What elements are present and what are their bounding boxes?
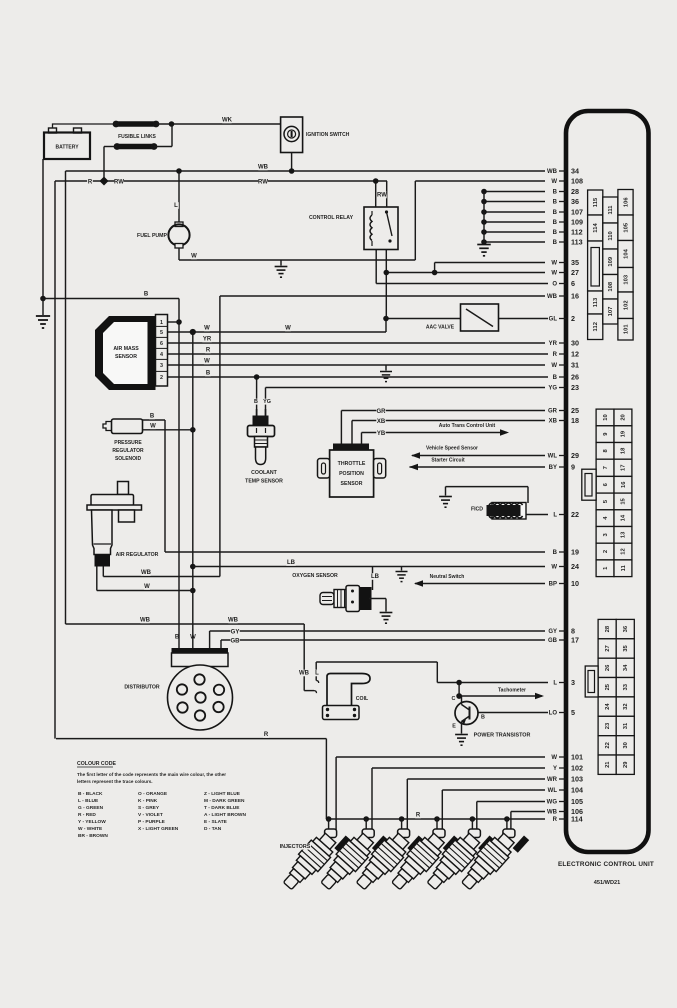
svg-text:2: 2 bbox=[571, 314, 575, 323]
svg-text:27: 27 bbox=[605, 645, 611, 651]
ECU middle connector table pins 1-20 bbox=[596, 409, 614, 426]
svg-text:AIR MASS: AIR MASS bbox=[113, 346, 139, 352]
svg-text:W: W bbox=[191, 254, 197, 260]
air mass sensor connector pins bbox=[156, 315, 168, 387]
svg-text:W: W bbox=[551, 271, 557, 277]
svg-text:104: 104 bbox=[571, 785, 583, 794]
label COIL bbox=[355, 696, 370, 702]
svg-text:X - LIGHT GREEN: X - LIGHT GREEN bbox=[138, 826, 179, 832]
svg-text:SOLENOID: SOLENOID bbox=[115, 456, 142, 462]
svg-text:112: 112 bbox=[593, 322, 599, 331]
svg-text:POWER TRANSISTOR: POWER TRANSISTOR bbox=[474, 733, 531, 739]
label INJECTORS bbox=[279, 844, 311, 850]
svg-text:BY: BY bbox=[549, 465, 557, 471]
svg-text:INJECTORS: INJECTORS bbox=[280, 844, 311, 850]
svg-text:101: 101 bbox=[571, 752, 583, 761]
wire labels GR XB YB bbox=[376, 408, 385, 415]
svg-text:15: 15 bbox=[621, 497, 627, 504]
injector 3 bbox=[351, 820, 424, 897]
svg-text:21: 21 bbox=[605, 761, 611, 768]
svg-text:Neutral Switch: Neutral Switch bbox=[430, 574, 465, 580]
svg-text:113: 113 bbox=[571, 237, 583, 246]
air mass sensor bbox=[95, 316, 156, 390]
svg-text:17: 17 bbox=[571, 635, 579, 644]
svg-text:110: 110 bbox=[608, 231, 614, 240]
svg-text:C: C bbox=[452, 696, 456, 702]
wire YR air mass pin6 to pin 30 bbox=[168, 342, 546, 344]
svg-text:WB: WB bbox=[140, 618, 151, 624]
wire WB air regulator bbox=[103, 576, 220, 578]
svg-text:M - DARK GREEN: M - DARK GREEN bbox=[204, 798, 245, 804]
svg-text:AAC VALVE: AAC VALVE bbox=[426, 325, 455, 331]
svg-text:W: W bbox=[551, 261, 557, 267]
svg-text:30: 30 bbox=[623, 742, 629, 748]
ignition switch bbox=[281, 117, 303, 153]
svg-text:7: 7 bbox=[603, 466, 609, 469]
wire R air mass pin4 to pin 12 bbox=[168, 353, 549, 355]
svg-text:102: 102 bbox=[623, 300, 629, 310]
svg-text:12: 12 bbox=[571, 349, 579, 358]
labels WB L at coil bbox=[299, 670, 308, 677]
svg-text:WB: WB bbox=[228, 618, 239, 624]
wire RW from battery to control relay bbox=[55, 180, 387, 182]
svg-text:103: 103 bbox=[623, 274, 629, 284]
junction R RW diamond bbox=[99, 176, 108, 185]
svg-text:RW: RW bbox=[258, 180, 268, 186]
svg-text:B: B bbox=[481, 715, 485, 721]
svg-text:31: 31 bbox=[623, 722, 629, 729]
AAC valve bbox=[461, 304, 499, 331]
svg-text:W: W bbox=[551, 363, 557, 369]
svg-text:YG: YG bbox=[548, 386, 557, 392]
svg-text:16: 16 bbox=[571, 291, 579, 300]
svg-text:LB: LB bbox=[287, 560, 296, 566]
wire L coil to pin 3 bbox=[315, 662, 317, 681]
svg-text:26: 26 bbox=[605, 664, 611, 671]
svg-text:YG: YG bbox=[263, 399, 271, 405]
svg-text:18: 18 bbox=[571, 416, 579, 425]
svg-text:107: 107 bbox=[571, 207, 583, 216]
battery ground bbox=[40, 296, 46, 302]
svg-text:B: B bbox=[254, 399, 258, 405]
svg-text:K - PINK: K - PINK bbox=[138, 798, 158, 804]
svg-text:G - GREEN: G - GREEN bbox=[78, 805, 104, 811]
wire B battery ground feed bbox=[43, 298, 179, 300]
wire O relay coil to pin 6 bbox=[376, 283, 548, 285]
svg-text:W: W bbox=[551, 565, 557, 571]
svg-text:W: W bbox=[285, 326, 291, 332]
svg-text:4: 4 bbox=[160, 352, 163, 358]
wire WB left vertical bbox=[65, 171, 67, 624]
svg-text:B: B bbox=[553, 240, 558, 246]
injector 6 bbox=[456, 820, 529, 897]
wire LB stub to oxygen sensor bbox=[372, 567, 374, 591]
svg-text:5: 5 bbox=[160, 330, 163, 336]
svg-text:13: 13 bbox=[621, 531, 627, 538]
wires air regulator bbox=[102, 567, 104, 577]
wire ignition switch to WB bus bbox=[291, 153, 293, 172]
svg-text:Vehicle Speed Sensor: Vehicle Speed Sensor bbox=[426, 446, 478, 452]
svg-text:101: 101 bbox=[623, 324, 629, 334]
svg-text:LB: LB bbox=[371, 574, 380, 580]
svg-text:WR: WR bbox=[547, 777, 558, 783]
battery bbox=[44, 133, 90, 160]
wire W air regulator bbox=[97, 590, 193, 592]
junction W pressure regulator bbox=[190, 427, 196, 433]
wire lower link left to RW junction bbox=[104, 146, 117, 148]
injector 5 bbox=[422, 820, 495, 897]
ECU bottom connector table pins 21-36 bbox=[598, 619, 616, 638]
svg-text:B: B bbox=[553, 200, 558, 206]
FICD solenoid bbox=[492, 503, 526, 520]
svg-text:WG: WG bbox=[547, 800, 558, 806]
svg-text:GR: GR bbox=[377, 409, 387, 415]
svg-text:A - LIGHT BROWN: A - LIGHT BROWN bbox=[204, 812, 246, 818]
svg-text:B: B bbox=[150, 414, 155, 420]
svg-text:WB: WB bbox=[299, 671, 310, 677]
svg-text:The first letter of the code r: The first letter of the code represents … bbox=[77, 772, 226, 777]
svg-text:GR: GR bbox=[548, 409, 558, 415]
svg-text:COIL: COIL bbox=[356, 696, 369, 702]
svg-text:33: 33 bbox=[623, 683, 629, 690]
svg-text:PRESSURE: PRESSURE bbox=[114, 440, 142, 446]
svg-text:Starter Circuit: Starter Circuit bbox=[431, 458, 465, 464]
svg-text:107: 107 bbox=[608, 307, 614, 317]
wire WB battery/ignition bus to pin 34 bbox=[66, 170, 546, 172]
svg-text:D - TAN: D - TAN bbox=[204, 826, 222, 832]
fuel pump bbox=[176, 168, 182, 174]
svg-text:RW: RW bbox=[114, 180, 124, 186]
wire B pressure regulator to pin 19 bbox=[165, 551, 545, 553]
svg-text:6: 6 bbox=[571, 279, 575, 288]
wires relay top bbox=[375, 181, 377, 207]
svg-text:24: 24 bbox=[605, 703, 611, 710]
wire W relay to pin 35 bbox=[435, 262, 545, 264]
svg-text:W: W bbox=[551, 755, 557, 761]
svg-text:108: 108 bbox=[571, 176, 583, 185]
ECU electronic control unit outline bbox=[566, 111, 649, 852]
svg-text:BP: BP bbox=[549, 582, 557, 588]
svg-text:COOLANT: COOLANT bbox=[251, 470, 277, 476]
wire WB to pin 16 bbox=[220, 295, 545, 297]
svg-text:115: 115 bbox=[593, 197, 599, 207]
wire GR throttle sensor to pin 25 bbox=[341, 410, 545, 412]
wire W relay switch to pin 27 bbox=[386, 272, 545, 274]
wire B air mass pin2 to pin 26 bbox=[168, 376, 549, 378]
svg-text:L: L bbox=[315, 671, 319, 677]
svg-text:22: 22 bbox=[571, 510, 579, 519]
svg-text:R: R bbox=[206, 348, 211, 354]
junction W air regulator bbox=[190, 588, 196, 594]
svg-text:WL: WL bbox=[548, 454, 558, 460]
svg-text:12: 12 bbox=[621, 548, 627, 554]
injector 4 bbox=[386, 820, 459, 897]
wire YB throttle sensor to auto trans arrow bbox=[362, 432, 507, 434]
wire B ground cluster pins 28-113 bbox=[484, 191, 545, 193]
svg-text:30: 30 bbox=[571, 338, 579, 347]
svg-text:B - BLACK: B - BLACK bbox=[78, 791, 103, 797]
svg-text:114: 114 bbox=[593, 223, 599, 233]
svg-text:Tachometer: Tachometer bbox=[498, 688, 526, 694]
wire WB vertical to coil bbox=[303, 624, 305, 691]
svg-text:W: W bbox=[190, 635, 196, 641]
wire W fuel pump to pin 108 bbox=[415, 180, 545, 182]
svg-text:2: 2 bbox=[160, 375, 163, 381]
wire BP neutral switch arrow to pin 10 bbox=[415, 583, 545, 585]
svg-text:R: R bbox=[553, 352, 558, 358]
svg-text:109: 109 bbox=[608, 256, 614, 266]
wire L FICD to pin 22 bbox=[526, 514, 548, 516]
wire LO power transistor base to pin 5 bbox=[478, 712, 548, 714]
power transistor bbox=[455, 702, 478, 725]
svg-text:451/WD21: 451/WD21 bbox=[594, 880, 620, 886]
svg-text:105: 105 bbox=[571, 797, 583, 806]
wire W air mass pin3 to pin 31 bbox=[168, 364, 546, 366]
wire GL AAC valve to pin 2 bbox=[386, 318, 461, 320]
svg-text:V - VIOLET: V - VIOLET bbox=[138, 812, 163, 818]
svg-text:YR: YR bbox=[203, 337, 212, 343]
wire labels air mass rows bbox=[204, 325, 210, 332]
svg-text:LO: LO bbox=[549, 711, 558, 717]
svg-text:27: 27 bbox=[571, 268, 579, 277]
svg-text:24: 24 bbox=[571, 562, 579, 571]
wire WB distributor/coil bus bbox=[66, 623, 305, 625]
pressure regulator solenoid bbox=[112, 419, 143, 434]
svg-text:E: E bbox=[452, 724, 456, 730]
svg-text:W: W bbox=[551, 179, 557, 185]
oxygen sensor ground bbox=[369, 598, 386, 600]
svg-text:Y: Y bbox=[553, 766, 557, 772]
svg-text:20: 20 bbox=[621, 414, 627, 420]
wire W vertical to distributor bbox=[192, 332, 194, 650]
svg-text:6: 6 bbox=[160, 341, 163, 347]
svg-text:L: L bbox=[174, 203, 178, 209]
svg-text:11: 11 bbox=[621, 564, 627, 571]
svg-text:29: 29 bbox=[623, 761, 629, 768]
svg-text:28: 28 bbox=[605, 625, 611, 632]
svg-text:108: 108 bbox=[608, 281, 614, 291]
svg-text:DISTRIBUTOR: DISTRIBUTOR bbox=[124, 685, 160, 691]
svg-text:FICD: FICD bbox=[471, 507, 483, 513]
svg-text:34: 34 bbox=[623, 664, 629, 671]
svg-text:10: 10 bbox=[603, 414, 609, 420]
svg-text:B: B bbox=[553, 220, 558, 226]
wire fusible links to ignition switch WK bbox=[156, 123, 281, 125]
svg-text:17: 17 bbox=[621, 465, 627, 471]
svg-text:B: B bbox=[175, 635, 180, 641]
wire GB distributor to pin 17 bbox=[221, 639, 545, 641]
svg-text:28: 28 bbox=[571, 187, 579, 196]
svg-text:RW: RW bbox=[377, 193, 387, 199]
svg-text:L: L bbox=[553, 513, 557, 519]
svg-text:9: 9 bbox=[571, 462, 575, 471]
svg-text:SENSOR: SENSOR bbox=[115, 354, 137, 360]
wire W fuel pump bottom run bbox=[179, 259, 415, 261]
FICD solenoid circuit ground bbox=[445, 487, 447, 496]
svg-text:112: 112 bbox=[571, 227, 583, 236]
label AIR REGULATOR bbox=[115, 552, 159, 558]
svg-text:W: W bbox=[150, 423, 156, 429]
wires pressure regulator B W bbox=[143, 419, 166, 421]
svg-text:R: R bbox=[264, 732, 269, 738]
svg-text:REGULATOR: REGULATOR bbox=[112, 448, 144, 454]
wire WL vehicle speed sensor arrow to pin 29 bbox=[412, 455, 545, 457]
svg-text:Y - YELLOW: Y - YELLOW bbox=[78, 819, 106, 825]
wire battery negative down bbox=[42, 159, 44, 299]
svg-text:36: 36 bbox=[571, 197, 579, 206]
svg-text:18: 18 bbox=[621, 447, 627, 454]
svg-text:B: B bbox=[553, 210, 558, 216]
svg-text:114: 114 bbox=[571, 814, 583, 823]
svg-text:GL: GL bbox=[549, 317, 558, 323]
svg-text:AIR REGULATOR: AIR REGULATOR bbox=[116, 552, 159, 558]
svg-text:T - DARK BLUE: T - DARK BLUE bbox=[204, 805, 240, 811]
svg-text:104: 104 bbox=[623, 248, 629, 258]
svg-text:35: 35 bbox=[571, 258, 579, 267]
svg-text:GB: GB bbox=[231, 639, 241, 645]
wire R injector bus to pin 114 bbox=[326, 818, 545, 820]
wire battery positive to fusible links bbox=[53, 124, 115, 128]
svg-text:19: 19 bbox=[571, 547, 579, 556]
svg-text:SENSOR: SENSOR bbox=[341, 481, 363, 487]
svg-text:Z - LIGHT BLUE: Z - LIGHT BLUE bbox=[204, 791, 241, 797]
svg-text:BR - BROWN: BR - BROWN bbox=[78, 833, 108, 839]
svg-text:3: 3 bbox=[571, 678, 575, 687]
ignition coil bbox=[327, 674, 370, 711]
svg-text:31: 31 bbox=[571, 360, 579, 369]
coolant temp sensor bbox=[256, 377, 258, 409]
svg-text:P - PURPLE: P - PURPLE bbox=[138, 819, 166, 825]
svg-text:BATTERY: BATTERY bbox=[55, 145, 79, 151]
svg-text:14: 14 bbox=[621, 514, 627, 521]
svg-text:GB: GB bbox=[548, 638, 558, 644]
wire XB throttle sensor to pin 18 bbox=[352, 420, 545, 422]
wire B vertical air mass pin1 to distributor bbox=[178, 322, 180, 650]
svg-text:FUSIBLE LINKS: FUSIBLE LINKS bbox=[118, 134, 156, 140]
svg-text:35: 35 bbox=[623, 645, 629, 652]
svg-text:102: 102 bbox=[571, 763, 583, 772]
svg-text:E - SLATE: E - SLATE bbox=[204, 819, 228, 825]
svg-text:O - ORANGE: O - ORANGE bbox=[138, 791, 168, 797]
svg-text:S - GREY: S - GREY bbox=[138, 805, 160, 811]
svg-text:POSITION: POSITION bbox=[339, 471, 364, 477]
svg-text:2: 2 bbox=[603, 550, 609, 553]
svg-text:R: R bbox=[553, 817, 558, 823]
svg-text:16: 16 bbox=[621, 481, 627, 488]
injector signal wires to pins 101-106 bbox=[336, 756, 545, 758]
ECU top connector table pins 101-115 bbox=[588, 190, 603, 215]
svg-text:WL: WL bbox=[548, 788, 558, 794]
svg-text:YR: YR bbox=[549, 341, 558, 347]
svg-text:25: 25 bbox=[571, 406, 579, 415]
svg-text:8: 8 bbox=[571, 626, 575, 635]
svg-text:25: 25 bbox=[605, 683, 611, 690]
svg-text:B: B bbox=[553, 550, 558, 556]
svg-text:WK: WK bbox=[222, 118, 233, 124]
svg-text:1: 1 bbox=[160, 320, 163, 326]
svg-text:B: B bbox=[553, 230, 558, 236]
svg-text:THROTTLE: THROTTLE bbox=[338, 461, 366, 467]
svg-text:23: 23 bbox=[605, 722, 611, 729]
svg-text:105: 105 bbox=[623, 222, 629, 232]
svg-text:10: 10 bbox=[571, 579, 579, 588]
svg-text:19: 19 bbox=[621, 430, 627, 437]
svg-text:34: 34 bbox=[571, 166, 579, 175]
svg-text:B: B bbox=[553, 375, 558, 381]
fusible link upper bbox=[117, 121, 155, 127]
svg-text:WB: WB bbox=[258, 165, 269, 171]
wire GY distributor to pin 8 bbox=[210, 630, 545, 632]
svg-text:103: 103 bbox=[571, 774, 583, 783]
svg-text:29: 29 bbox=[571, 451, 579, 460]
svg-text:W: W bbox=[204, 326, 210, 332]
power transistor emitter ground bbox=[461, 722, 463, 734]
injector 1 bbox=[278, 820, 351, 897]
svg-text:ELECTRONIC CONTROL UNIT: ELECTRONIC CONTROL UNIT bbox=[558, 861, 654, 868]
svg-text:B: B bbox=[553, 190, 558, 196]
svg-text:R - RED: R - RED bbox=[78, 812, 96, 818]
wires relay bottom bbox=[385, 250, 387, 319]
svg-text:O: O bbox=[552, 282, 557, 288]
junction W pin24 row bbox=[190, 564, 196, 570]
svg-text:L: L bbox=[553, 681, 557, 687]
wire lower link to junction bbox=[154, 146, 172, 148]
wire W/LB oxygen sensor row to pin 24 bbox=[193, 566, 545, 568]
svg-text:B: B bbox=[206, 371, 211, 377]
wire W air mass pin5 to relay/AAC node bbox=[168, 331, 387, 333]
junction L line over power transistor bbox=[456, 680, 462, 686]
svg-text:B: B bbox=[144, 292, 149, 298]
svg-text:R: R bbox=[416, 813, 421, 819]
ground stub on W pin31 line bbox=[385, 365, 387, 371]
svg-text:XB: XB bbox=[377, 419, 386, 425]
svg-text:TEMP SENSOR: TEMP SENSOR bbox=[245, 479, 283, 485]
svg-text:36: 36 bbox=[623, 625, 629, 632]
svg-text:W: W bbox=[204, 359, 210, 365]
svg-text:WB: WB bbox=[141, 570, 152, 576]
svg-text:Auto Trans Control Unit: Auto Trans Control Unit bbox=[439, 423, 496, 429]
svg-text:23: 23 bbox=[571, 383, 579, 392]
ground stub near neutral switch bbox=[401, 567, 403, 571]
svg-text:WB: WB bbox=[547, 810, 558, 816]
svg-text:WB: WB bbox=[547, 294, 558, 300]
wire BY starter circuit arrow to pin 9 bbox=[410, 466, 546, 468]
svg-text:109: 109 bbox=[571, 217, 583, 226]
svg-text:IGNITION SWITCH: IGNITION SWITCH bbox=[306, 132, 350, 138]
svg-text:22: 22 bbox=[605, 742, 611, 748]
svg-text:113: 113 bbox=[593, 297, 599, 307]
svg-text:W: W bbox=[144, 584, 150, 590]
svg-text:FUEL PUMP: FUEL PUMP bbox=[137, 233, 167, 239]
wire R injector supply bbox=[56, 738, 326, 740]
svg-text:letters represent the trace co: letters represent the trace colours. bbox=[77, 779, 153, 784]
injector 2 bbox=[315, 820, 388, 897]
svg-text:YB: YB bbox=[377, 431, 386, 437]
svg-text:XB: XB bbox=[549, 419, 558, 425]
distributor bbox=[172, 648, 229, 653]
ground at fuel pump line bbox=[280, 260, 282, 266]
svg-text:R: R bbox=[88, 180, 93, 186]
svg-text:W - WHITE: W - WHITE bbox=[78, 826, 103, 832]
throttle position sensor bbox=[333, 444, 369, 452]
control relay bbox=[364, 207, 398, 250]
svg-text:106: 106 bbox=[623, 197, 629, 207]
svg-text:L - BLUE: L - BLUE bbox=[78, 798, 99, 804]
svg-text:32: 32 bbox=[623, 703, 629, 709]
ground of B pin cluster bbox=[483, 192, 485, 244]
svg-text:OXYGEN SENSOR: OXYGEN SENSOR bbox=[292, 573, 338, 579]
air regulator bbox=[118, 482, 129, 495]
